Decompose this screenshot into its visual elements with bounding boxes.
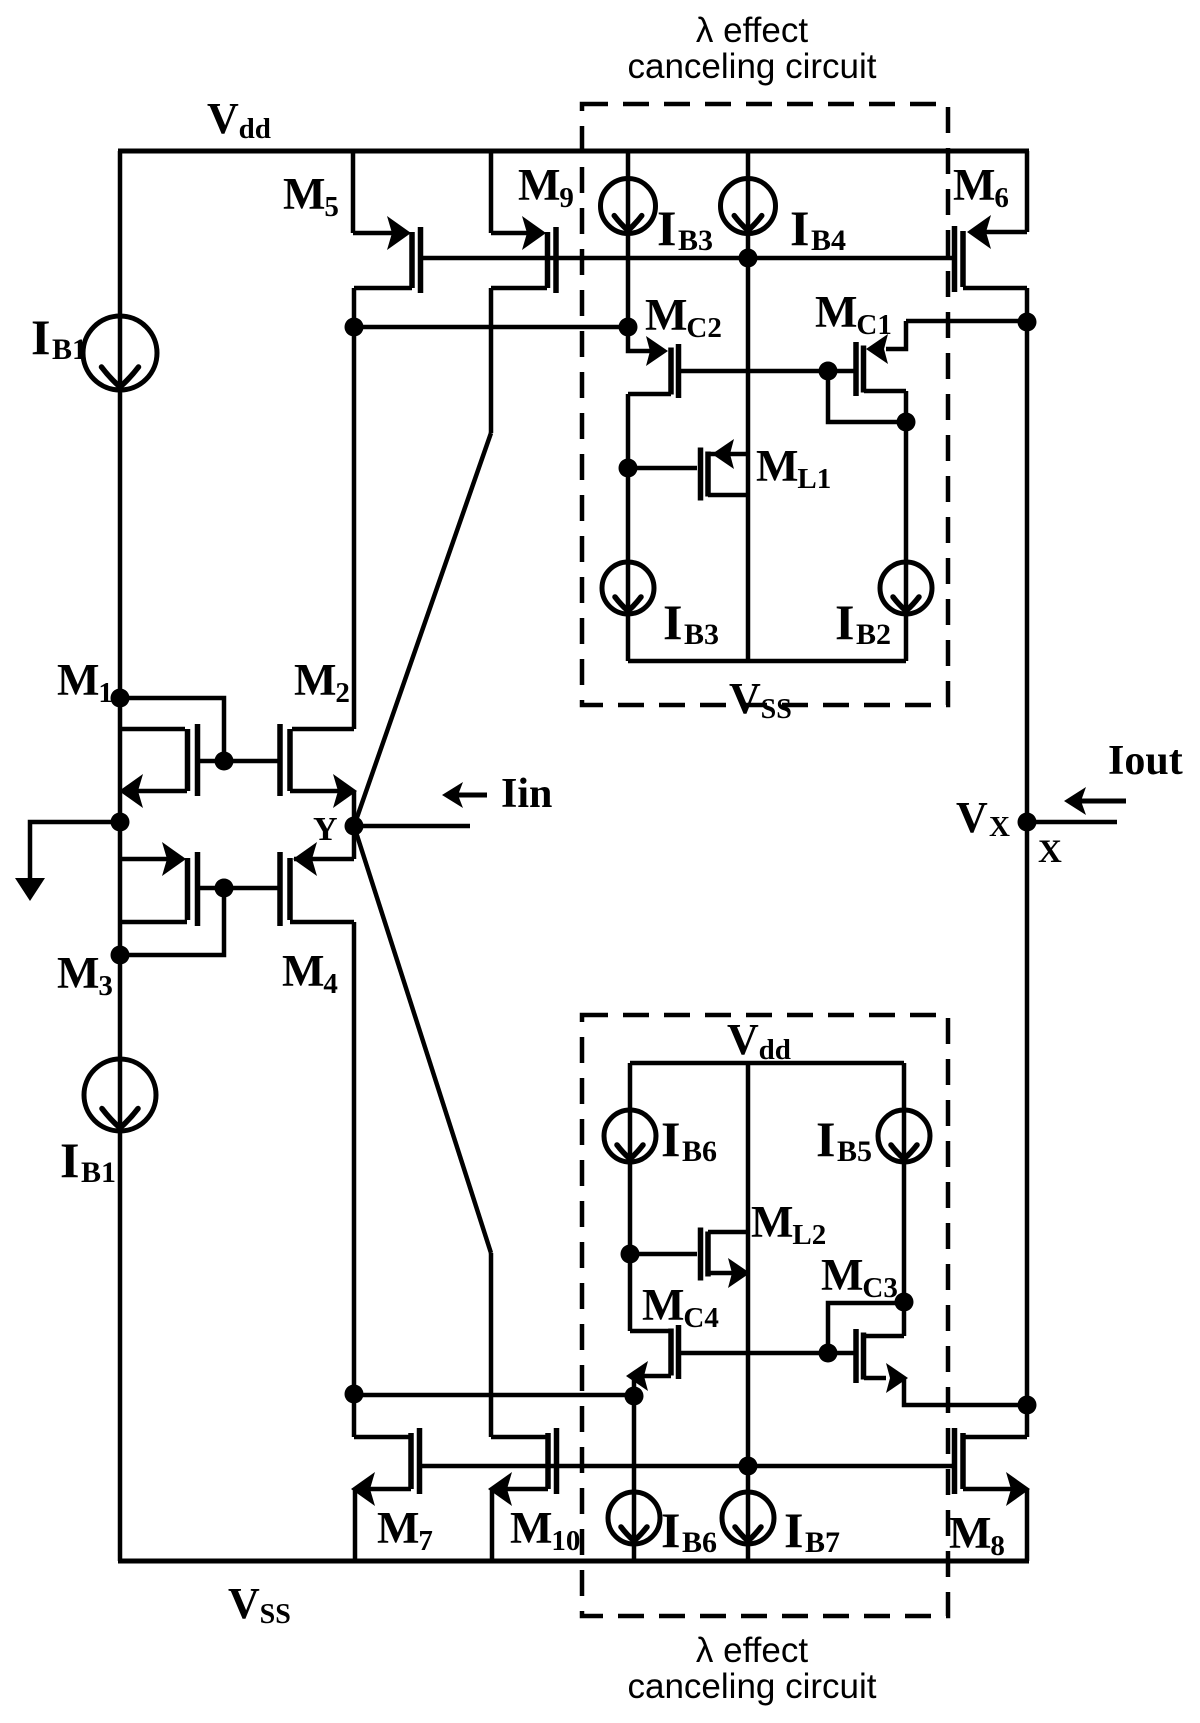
lambda effect canceling circuit box (bottom) xyxy=(582,1015,948,1616)
svg-text:C4: C4 xyxy=(683,1302,718,1334)
wire gate line M1-M2 xyxy=(198,759,281,764)
current source IB2 xyxy=(904,422,909,661)
svg-text:V: V xyxy=(207,94,239,143)
svg-text:canceling circuit: canceling circuit xyxy=(628,1667,877,1706)
svg-text:Iout: Iout xyxy=(1108,738,1183,784)
svg-text:dd: dd xyxy=(239,113,271,145)
current source IB5 xyxy=(902,1063,907,1302)
svg-text:B6: B6 xyxy=(682,1135,717,1168)
svg-text:V: V xyxy=(956,793,988,842)
svg-text:M: M xyxy=(518,160,560,210)
svg-text:I: I xyxy=(60,1132,79,1188)
wire M4 drain lead down to M7 drain node xyxy=(352,922,357,1394)
junction dot IB7 on gate line xyxy=(739,1457,758,1476)
wire Vss rail xyxy=(118,1559,1029,1564)
current source IB4 xyxy=(746,151,751,661)
svg-text:M: M xyxy=(821,1250,863,1300)
Iout arrow xyxy=(1078,799,1126,804)
node Y junction dot xyxy=(345,817,364,836)
wire top box bottom rail xyxy=(628,659,906,664)
svg-text:I: I xyxy=(784,1502,803,1558)
transistor M2 xyxy=(292,727,354,732)
Iin arrow xyxy=(452,793,487,798)
junction dot MC1 gate/drain node xyxy=(819,362,838,381)
junction dot IB4 on gate line xyxy=(739,249,758,268)
svg-text:M: M xyxy=(815,287,857,337)
svg-text:M: M xyxy=(949,1508,991,1558)
current source IB6 (lower) xyxy=(632,1396,637,1561)
wire M4 source lead to node Y xyxy=(352,826,357,859)
transistor MC4 xyxy=(628,1254,633,1331)
svg-text:I: I xyxy=(663,594,682,650)
svg-text:B7: B7 xyxy=(805,1526,840,1559)
svg-text:I: I xyxy=(657,200,676,256)
transistor M10 xyxy=(489,1253,494,1437)
svg-text:7: 7 xyxy=(418,1525,433,1557)
svg-text:M: M xyxy=(282,946,324,996)
svg-text:6: 6 xyxy=(994,182,1009,214)
svg-text:M: M xyxy=(510,1503,552,1553)
svg-text:M: M xyxy=(751,1197,793,1247)
svg-text:X: X xyxy=(989,811,1010,843)
wire ground tap xyxy=(30,822,120,878)
svg-text:M: M xyxy=(377,1503,419,1553)
junction dot MC4 source node xyxy=(625,1387,644,1406)
svg-text:SS: SS xyxy=(260,1599,291,1630)
svg-text:SS: SS xyxy=(761,694,792,725)
svg-text:L2: L2 xyxy=(792,1219,826,1251)
junction dot MC3 drain / IB5 node xyxy=(895,1293,914,1312)
svg-text:4: 4 xyxy=(323,968,338,1000)
wire MC1 gate-drain loop xyxy=(828,371,906,422)
svg-text:C3: C3 xyxy=(862,1272,897,1304)
wire node X down to M8 drain node xyxy=(1025,822,1030,1405)
transistor M1 xyxy=(120,727,185,732)
current source IB7 xyxy=(722,1492,774,1544)
junction dot M6 drain node xyxy=(1018,313,1037,332)
svg-text:L1: L1 xyxy=(797,463,831,495)
transistor M4 xyxy=(294,857,354,862)
transistor M5 xyxy=(351,151,356,233)
transistor MC3 xyxy=(861,1333,867,1380)
junction dot M3-M4 gate node xyxy=(215,879,234,898)
svg-text:I: I xyxy=(816,1111,835,1167)
junction dot MC2 source node (IB3 / M5 drain line) xyxy=(619,318,638,337)
svg-text:V: V xyxy=(228,1579,260,1628)
wire Iout stub at node X xyxy=(1027,820,1117,825)
junction dot M3 drain node xyxy=(111,946,130,965)
wire gate line M5-M9-M6 xyxy=(421,256,955,261)
transistor MC1 xyxy=(886,321,906,349)
svg-text:B1: B1 xyxy=(52,333,87,366)
current source IB3 (lower) xyxy=(626,468,631,661)
junction dot M7 drain node xyxy=(345,1385,364,1404)
transistor M6 xyxy=(1025,151,1030,232)
svg-text:M: M xyxy=(294,655,336,705)
wire Vdd rail xyxy=(118,149,1029,154)
junction dot MC1 drain / IB2 node xyxy=(897,413,916,432)
wire M6 drain to MC1 source xyxy=(906,319,1027,324)
svg-text:3: 3 xyxy=(98,970,113,1002)
wire MC3 gate-drain loop xyxy=(828,1303,904,1353)
wire ML2 center line (rail through to IB7) xyxy=(746,1063,751,1561)
svg-text:M: M xyxy=(57,655,99,705)
wire diagonal node Y to M10 drain xyxy=(354,826,491,1253)
svg-text:9: 9 xyxy=(559,182,574,214)
current source IB1 (bottom) xyxy=(84,1059,156,1131)
transistor ML1 xyxy=(628,466,697,471)
wire gate line M7-M10-M8 xyxy=(420,1464,955,1469)
svg-text:B2: B2 xyxy=(856,618,891,651)
svg-text:I: I xyxy=(835,594,854,650)
transistor M7 xyxy=(352,1394,357,1437)
junction dot M8 drain node xyxy=(1018,1396,1037,1415)
ground xyxy=(15,878,45,901)
svg-text:λ effect: λ effect xyxy=(696,1631,808,1670)
svg-text:M: M xyxy=(953,160,995,210)
svg-text:I: I xyxy=(31,309,50,365)
transistor ML2 xyxy=(630,1252,697,1257)
wire diagonal M9 drain to node Y xyxy=(354,433,491,826)
node M5 drain / M2 drain junction xyxy=(345,318,364,337)
svg-text:canceling circuit: canceling circuit xyxy=(628,47,877,86)
current source IB1 (top) xyxy=(83,316,157,390)
junction dot common source node (M1/M3/ground tap) xyxy=(111,813,130,832)
transistor M3 xyxy=(120,857,183,862)
svg-text:I: I xyxy=(661,1111,680,1167)
svg-text:C1: C1 xyxy=(856,309,891,341)
svg-text:M: M xyxy=(57,948,99,998)
wire M3 diode connection xyxy=(120,888,224,955)
wire right branch M6 drain down to node X xyxy=(1025,322,1030,822)
wire left branch vertical (Vdd to Vss through IB1 sources) xyxy=(118,151,123,1561)
svg-text:B4: B4 xyxy=(811,224,846,257)
svg-text:M: M xyxy=(756,441,798,491)
svg-text:M: M xyxy=(645,290,687,340)
svg-text:V: V xyxy=(727,1015,759,1064)
wire M2 drain lead xyxy=(352,327,357,729)
wire bottom box top rail xyxy=(630,1061,904,1066)
wire M7 drain node to MC4 source node xyxy=(354,1393,634,1398)
svg-text:λ effect: λ effect xyxy=(696,11,808,50)
svg-text:I: I xyxy=(790,200,809,256)
wire Iin stub at node Y xyxy=(354,824,470,829)
current source IB6 (upper) xyxy=(628,1063,633,1254)
svg-text:B5: B5 xyxy=(837,1135,872,1168)
svg-text:B6: B6 xyxy=(682,1526,717,1559)
svg-text:Y: Y xyxy=(313,811,338,848)
svg-text:B3: B3 xyxy=(678,224,713,257)
svg-text:8: 8 xyxy=(990,1530,1005,1562)
junction dot M1-M2 gate node xyxy=(215,752,234,771)
wire M1 diode connection xyxy=(120,698,224,761)
junction dot ML1 gate / IB3 lower node xyxy=(619,459,638,478)
wire M5 drain node to MC2 source node xyxy=(354,325,628,330)
svg-text:C2: C2 xyxy=(686,312,721,344)
svg-text:10: 10 xyxy=(551,1525,580,1557)
junction dot ML2 gate / MC4 drain node xyxy=(621,1245,640,1264)
node X junction dot xyxy=(1018,813,1037,832)
wire gate line MC2-MC1 xyxy=(681,369,855,374)
svg-text:X: X xyxy=(1038,834,1062,870)
transistor MC2 xyxy=(628,327,650,351)
current source IB3 (upper) xyxy=(626,151,631,327)
svg-text:2: 2 xyxy=(335,677,350,709)
junction dot M1 drain node xyxy=(111,689,130,708)
svg-text:V: V xyxy=(729,674,761,723)
wire gate line M3-M4 xyxy=(198,886,281,891)
svg-text:5: 5 xyxy=(324,191,339,223)
svg-text:1: 1 xyxy=(98,677,113,709)
svg-text:M: M xyxy=(642,1280,684,1330)
svg-text:Iin: Iin xyxy=(501,771,552,817)
junction dot MC3 gate/drain node xyxy=(819,1344,838,1363)
svg-text:I: I xyxy=(661,1502,680,1558)
svg-text:M: M xyxy=(283,169,325,219)
svg-text:B1: B1 xyxy=(81,1156,116,1189)
transistor M8 xyxy=(1025,1405,1030,1437)
transistor M9 xyxy=(489,151,494,233)
wire gate line MC4-MC3 xyxy=(681,1351,855,1356)
lambda effect canceling circuit box (top) xyxy=(582,104,948,705)
svg-text:B3: B3 xyxy=(684,618,719,651)
